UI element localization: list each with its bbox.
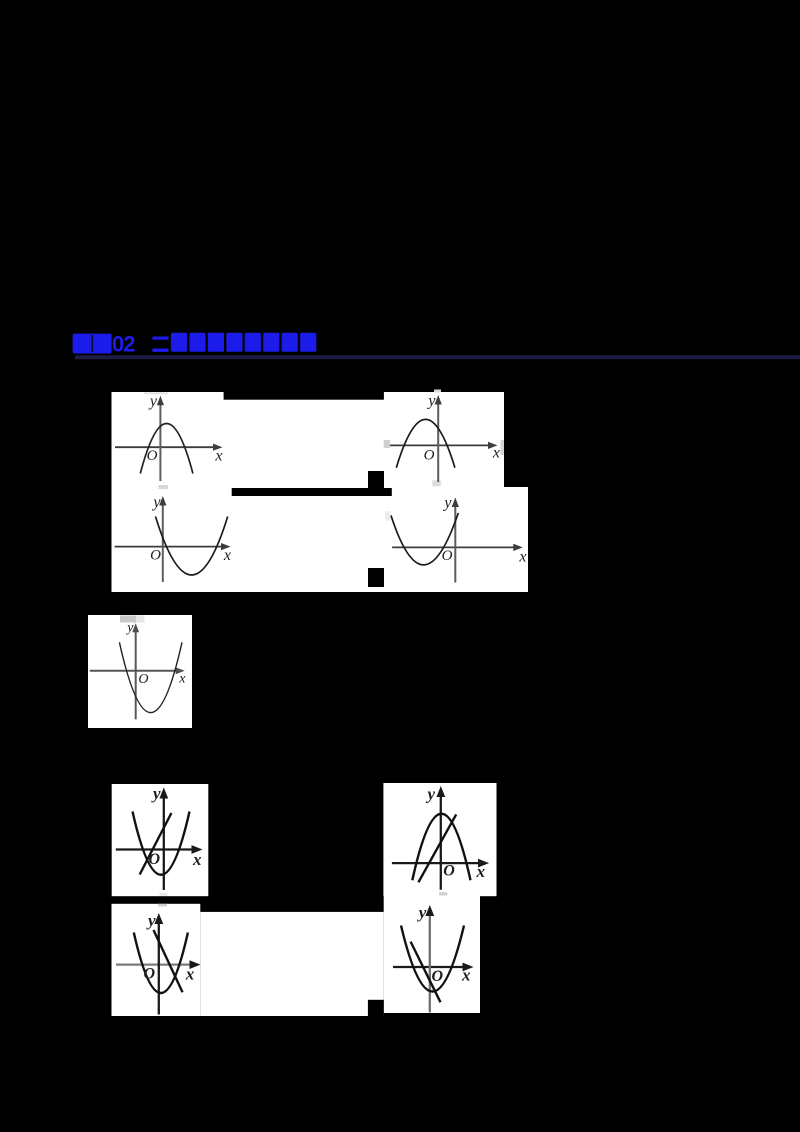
svg-text:x: x: [178, 671, 186, 686]
white box D1: [112, 784, 209, 896]
B1 parabola: [156, 517, 228, 576]
svg-text:x: x: [192, 850, 202, 869]
white block row A (figures A1+A2 band): [112, 392, 505, 487]
svg-text:O: O: [147, 448, 158, 464]
B2 x-axis arrow: [513, 544, 523, 551]
figure B2: [391, 494, 527, 582]
figure D2: [392, 785, 489, 890]
B2 x-axis: [392, 546, 518, 548]
E1 y-axis: [158, 920, 160, 1015]
svg-text:O: O: [443, 863, 455, 880]
svg-text:y: y: [151, 784, 161, 803]
E2 parabola: [401, 926, 464, 992]
svg-text:O: O: [138, 672, 148, 687]
E2 y-axis: [429, 912, 431, 1013]
grey smudge top of E1: [158, 904, 167, 907]
svg-text:O: O: [148, 851, 160, 868]
D2 line: [418, 814, 456, 882]
grey block top of C (dark part): [120, 616, 136, 623]
E2 x-axis: [393, 966, 467, 968]
svg-text:O: O: [143, 966, 155, 983]
svg-text:x: x: [223, 547, 231, 564]
white band row E middle: [200, 912, 383, 1016]
svg-text:O: O: [432, 968, 444, 985]
grey smudge top of E2: [439, 892, 447, 895]
svg-text:x: x: [461, 965, 471, 984]
B1 y-axis: [162, 501, 164, 582]
B2 y-axis: [454, 502, 456, 582]
figure B1: [115, 494, 231, 582]
grey smudge top of A1: [144, 392, 168, 394]
black notch row E bottom left of E2: [368, 1000, 384, 1016]
black strip between rows A and B: [232, 488, 392, 496]
A2 x-axis: [390, 444, 493, 446]
grey smudge left edge of B2: [385, 511, 391, 520]
grey block top of C (light part): [136, 616, 145, 623]
D2 y-axis: [440, 793, 442, 890]
E1 line: [154, 930, 183, 992]
D2 x-axis arrow: [478, 859, 489, 868]
svg-text:x: x: [476, 862, 486, 881]
svg-text:y: y: [426, 392, 436, 409]
grey smudge bottom of A2: [432, 480, 440, 486]
heading badge 题型: [73, 334, 112, 354]
E1 y-axis arrow: [154, 913, 163, 924]
A2 y-axis: [437, 400, 439, 482]
A2 parabola: [396, 419, 455, 467]
E1 x-axis: [116, 963, 194, 965]
figure A2: [390, 392, 500, 482]
svg-text:O: O: [150, 548, 161, 564]
D1 x-axis arrow: [192, 845, 203, 854]
grey smudge top of B1: [158, 485, 168, 489]
B1 x-axis: [115, 546, 226, 548]
D1 y-axis: [163, 794, 165, 890]
E2 x-axis arrow: [463, 963, 474, 972]
white block row B (figures B1+B2 band): [112, 487, 529, 592]
A1 y-axis: [159, 401, 161, 482]
svg-text:y: y: [148, 393, 158, 410]
white box E2: [384, 890, 480, 1013]
figure E1: [116, 911, 201, 1014]
D1 y-axis arrow: [159, 788, 168, 799]
svg-text:y: y: [151, 494, 161, 511]
grey square right edge of A2: [501, 440, 505, 455]
svg-text:y: y: [125, 621, 134, 636]
B2 y-axis arrow: [452, 498, 459, 508]
B1 x-axis arrow: [221, 543, 231, 550]
grey square left edge of A2: [384, 440, 390, 448]
E1 x-axis arrow: [190, 960, 201, 969]
heading rule (navy underline): [75, 355, 800, 359]
svg-text:y: y: [417, 903, 427, 922]
figure D1: [116, 784, 203, 890]
svg-text:x: x: [185, 964, 195, 983]
grey smudge bottom of D1: [160, 893, 168, 896]
A1 x-axis arrow: [213, 444, 223, 451]
black notch between A tops: [224, 392, 384, 400]
svg-text:y: y: [146, 911, 156, 930]
white box row C: [88, 615, 192, 728]
A1 y-axis arrow: [157, 396, 164, 406]
C y-axis arrow: [132, 623, 139, 632]
svg-text:02: 02: [112, 332, 135, 357]
white box D2: [383, 783, 496, 896]
C x-axis: [90, 670, 180, 672]
E2 y-axis arrow: [425, 905, 434, 916]
svg-text:x: x: [492, 445, 500, 462]
D2 x-axis: [392, 862, 483, 864]
C parabola: [119, 642, 182, 712]
black square notch row A bottom: [368, 471, 384, 489]
C x-axis arrow: [176, 667, 185, 674]
A1 x-axis: [115, 446, 218, 448]
svg-text:x: x: [518, 549, 526, 566]
B1 y-axis arrow: [159, 496, 166, 506]
white box E1: [112, 904, 201, 1016]
D1 parabola: [133, 812, 190, 875]
figure E2: [393, 903, 474, 1012]
C y-axis: [135, 628, 137, 720]
black square notch row B bottom: [368, 568, 384, 587]
D2 y-axis arrow: [436, 786, 445, 797]
D1 x-axis: [116, 848, 196, 850]
svg-text:y: y: [442, 494, 452, 511]
D1 line: [140, 813, 172, 875]
A2 x-axis arrow: [488, 442, 498, 449]
figure C: [90, 621, 186, 720]
svg-text:O: O: [424, 447, 435, 463]
heading title blobs (bold blue CJK text): [153, 333, 317, 352]
B2 parabola: [391, 513, 458, 565]
figure A1: [115, 393, 223, 481]
D2 parabola: [412, 814, 470, 881]
grey smudge top of A2: [434, 390, 441, 393]
E2 line: [411, 942, 441, 1003]
svg-text:y: y: [425, 785, 435, 804]
A1 parabola: [140, 424, 193, 474]
svg-text:O: O: [442, 548, 453, 564]
A2 y-axis arrow: [435, 395, 442, 405]
svg-text:x: x: [214, 448, 222, 465]
E1 parabola: [134, 933, 188, 994]
